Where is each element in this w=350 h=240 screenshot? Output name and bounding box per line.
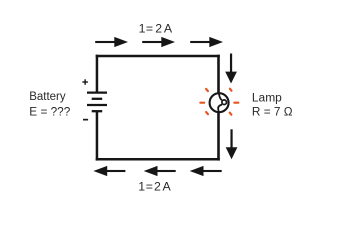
svg-text:R = 7 Ω: R = 7 Ω	[252, 104, 293, 118]
wire left upper segment	[96, 55, 99, 93]
wire left lower segment	[96, 111, 99, 160]
svg-text:E = ???: E = ???	[29, 104, 70, 118]
battery + terminal label	[82, 79, 88, 85]
lamp (circle)	[210, 93, 229, 112]
lamp rays	[200, 89, 238, 115]
lamp filament	[218, 93, 222, 112]
current arrow bottom 1 (left)	[93, 166, 125, 176]
current arrow top 1	[95, 37, 128, 47]
label lamp value R = 7 ohm	[252, 104, 293, 118]
current arrow bottom 3 (left)	[190, 166, 222, 176]
svg-text:1=2A: 1=2A	[138, 180, 171, 194]
current arrow top 3	[190, 37, 223, 47]
svg-text:Lamp: Lamp	[252, 91, 282, 105]
svg-text:1=2A: 1=2A	[139, 22, 173, 36]
label lamp name	[252, 91, 282, 105]
wire top	[96, 55, 220, 58]
wire bottom	[96, 158, 220, 161]
label battery value E = ???	[29, 104, 70, 118]
lamp filament loop	[222, 100, 227, 105]
label battery name	[29, 89, 65, 103]
svg-text:Battery: Battery	[29, 89, 65, 103]
wire right upper segment	[217, 55, 220, 93]
current arrow top 2	[142, 37, 175, 47]
current arrow right lower (down)	[226, 129, 238, 159]
current arrow bottom 2 (left)	[144, 166, 176, 176]
wire right lower segment	[217, 112, 220, 160]
battery - terminal label	[83, 119, 88, 121]
current arrow right upper (down)	[225, 54, 237, 84]
battery B1 (Battery E = ???)	[87, 93, 107, 112]
